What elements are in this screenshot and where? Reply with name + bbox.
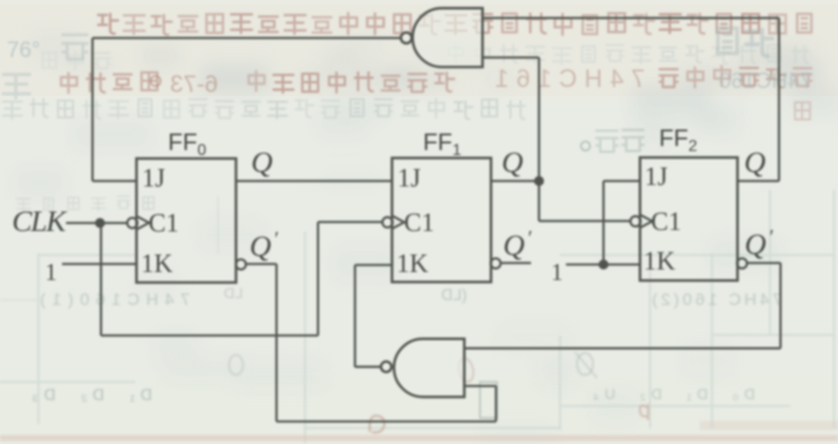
svg-text:C1: C1 [651, 207, 681, 236]
svg-text:1: 1 [551, 260, 563, 286]
FF2 clock pin C1 edge symbol [630, 215, 652, 227]
wire node A down [538, 181, 540, 221]
wire FF0 Q' down [275, 264, 277, 422]
svg-text:1J: 1J [645, 162, 668, 191]
wire constant 1 to FF0 1K [62, 263, 137, 265]
wire CLK input lead [66, 222, 127, 224]
wire FF1 Q' stub [500, 262, 531, 264]
wire FF2 Q' down [779, 263, 781, 348]
svg-text:C1: C1 [149, 209, 179, 238]
NAND gate G1 (top, faces left) [401, 8, 483, 67]
junction dot node B (FF2 J/K tie) [599, 260, 609, 270]
wire node B up [602, 181, 604, 265]
wire G2 output left [355, 366, 381, 368]
wire FF2 Q' to G2 input A [464, 347, 780, 349]
svg-text:1J: 1J [142, 164, 165, 193]
wire FF0 Q to FF1 1J [236, 180, 392, 182]
wire G2 output into FF1 1K [355, 264, 392, 266]
wire into FF2 C1 [539, 220, 631, 222]
svg-text:Q: Q [251, 146, 273, 179]
wire FF2 Q up [778, 18, 780, 181]
svg-text:74HC160(1): 74HC160(1) [40, 290, 190, 309]
junction dot on CLK net [95, 218, 105, 228]
svg-text:76°: 76° [7, 37, 40, 62]
wire CLK branch down [100, 223, 102, 336]
flip-flop FF0 body [137, 159, 237, 283]
FF0 clock pin C1 edge symbol [127, 217, 149, 229]
FF2 Q' output bubble [737, 258, 747, 268]
flip-flop FF2 body [640, 158, 738, 281]
wire CLK into FF1 C1 [318, 221, 383, 223]
svg-text:Q: Q [744, 146, 766, 179]
svg-text:CLK: CLK [12, 205, 68, 238]
wire up to G2 input B [495, 386, 497, 422]
wire FF2 Q lead [738, 180, 780, 182]
svg-text:74HC160: 74HC160 [719, 68, 812, 93]
wire FF0 Q' bottom run [277, 420, 497, 422]
FF0 Q' output bubble [236, 259, 246, 269]
NAND gate G2 (bottom, faces left) [381, 339, 464, 397]
wire G1 output down [91, 38, 93, 181]
wire FF2 Q' lead [746, 262, 780, 264]
svg-text:1K: 1K [397, 249, 429, 278]
flip-flop FF1 body [392, 158, 491, 282]
wire G2 output up [354, 265, 356, 367]
svg-text:1: 1 [45, 260, 57, 286]
wire G1 output into FF0 1J [93, 180, 137, 182]
wire into G2 input B [464, 385, 496, 387]
wire CLK branch bottom run [101, 334, 318, 336]
svg-text:1K: 1K [644, 247, 676, 276]
FF1 clock pin C1 edge symbol [382, 216, 404, 228]
wire constant 1 to FF2 1K [566, 263, 640, 265]
wire G1 output run left [93, 37, 402, 39]
wire FF0 Q' lead [245, 263, 276, 265]
wire node A up to G1 input B [483, 58, 540, 182]
svg-text:LD: LD [224, 285, 243, 302]
wire CLK branch up to FF1 [317, 222, 319, 336]
svg-text:1K: 1K [141, 249, 173, 278]
wire node B into FF2 1J [604, 180, 641, 182]
svg-text:Q: Q [502, 146, 524, 179]
wire FF2 Q to G1 input A [483, 17, 780, 19]
svg-text:C1: C1 [404, 208, 434, 237]
svg-text:6-73: 6-73 [170, 71, 218, 98]
svg-text:1J: 1J [398, 164, 421, 193]
wire FF1 Q to node A [491, 180, 539, 182]
FF1 Q' output bubble [491, 258, 501, 268]
svg-text:(LD: (LD [441, 287, 467, 304]
svg-text:74HC161: 74HC161 [495, 65, 645, 93]
junction dot node A (FF1 Q net) [534, 176, 544, 186]
